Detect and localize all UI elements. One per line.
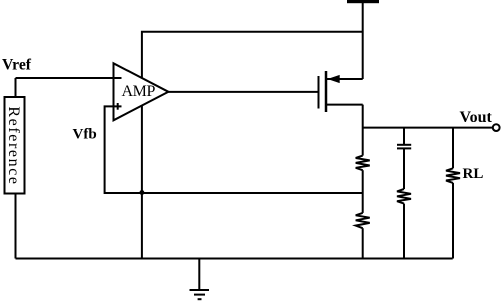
wire R2 to ground rail: [362, 228, 364, 258]
wire cap branch top: [403, 128, 405, 145]
svg-text:Vout: Vout: [460, 109, 493, 126]
wire top rail VDD to amp supply column: [142, 32, 363, 259]
svg-text:Vfb: Vfb: [73, 127, 97, 143]
svg-text:Vref: Vref: [2, 57, 32, 74]
wire amp + input stub / Vfb feedback line: [105, 106, 363, 193]
svg-text:Reference: Reference: [5, 106, 22, 185]
Vout rail: [363, 127, 493, 129]
op-amp U1 AMP triangle: [114, 63, 169, 120]
ground rail (bottom): [16, 258, 453, 260]
capacitor C1 top plate: [397, 144, 411, 146]
wire cap to ESR resistor: [403, 149, 405, 189]
svg-text:RL: RL: [463, 166, 484, 182]
junction dot at Vfb crossing: [140, 190, 145, 195]
wire Vref to amp inverting input with minus dash: [16, 77, 122, 79]
transistor M1 gate bar: [318, 76, 320, 109]
wire R1 to Vfb node: [362, 170, 364, 213]
wire Vref down to reference block: [15, 78, 17, 97]
ground symbol stem: [198, 259, 200, 291]
svg-text:AMP: AMP: [122, 83, 156, 100]
transistor M1 source arrow: [328, 75, 340, 83]
voltage reference block: [5, 97, 25, 194]
wire amp output to pass transistor gate: [168, 91, 318, 93]
ground symbol bar 1: [190, 289, 210, 291]
capacitor C1 bottom plate: [397, 147, 411, 149]
resistor RL load: [446, 168, 460, 183]
wire ESR resistor to ground rail: [403, 204, 405, 259]
transistor M1 channel bar: [325, 71, 328, 112]
op-amp plus sign vertical arm: [117, 103, 119, 110]
resistor R1 (upper feedback): [356, 156, 370, 171]
transistor M1 source terminal wire: [327, 78, 363, 80]
ground symbol bar 2: [194, 294, 205, 296]
resistor R2 (lower feedback): [356, 213, 370, 228]
VDD stem wire: [362, 2, 364, 80]
ground symbol bar 3: [198, 298, 202, 300]
wire load branch top: [452, 128, 454, 169]
resistor Resr: [397, 189, 411, 204]
wire reference block to ground rail: [15, 194, 17, 259]
Vout open terminal circle: [493, 124, 500, 131]
wire RL to ground rail: [452, 183, 454, 259]
VDD power bar: [347, 0, 379, 3]
wire drain down to Vout rail: [362, 105, 364, 156]
transistor M1 drain terminal wire: [327, 104, 363, 106]
